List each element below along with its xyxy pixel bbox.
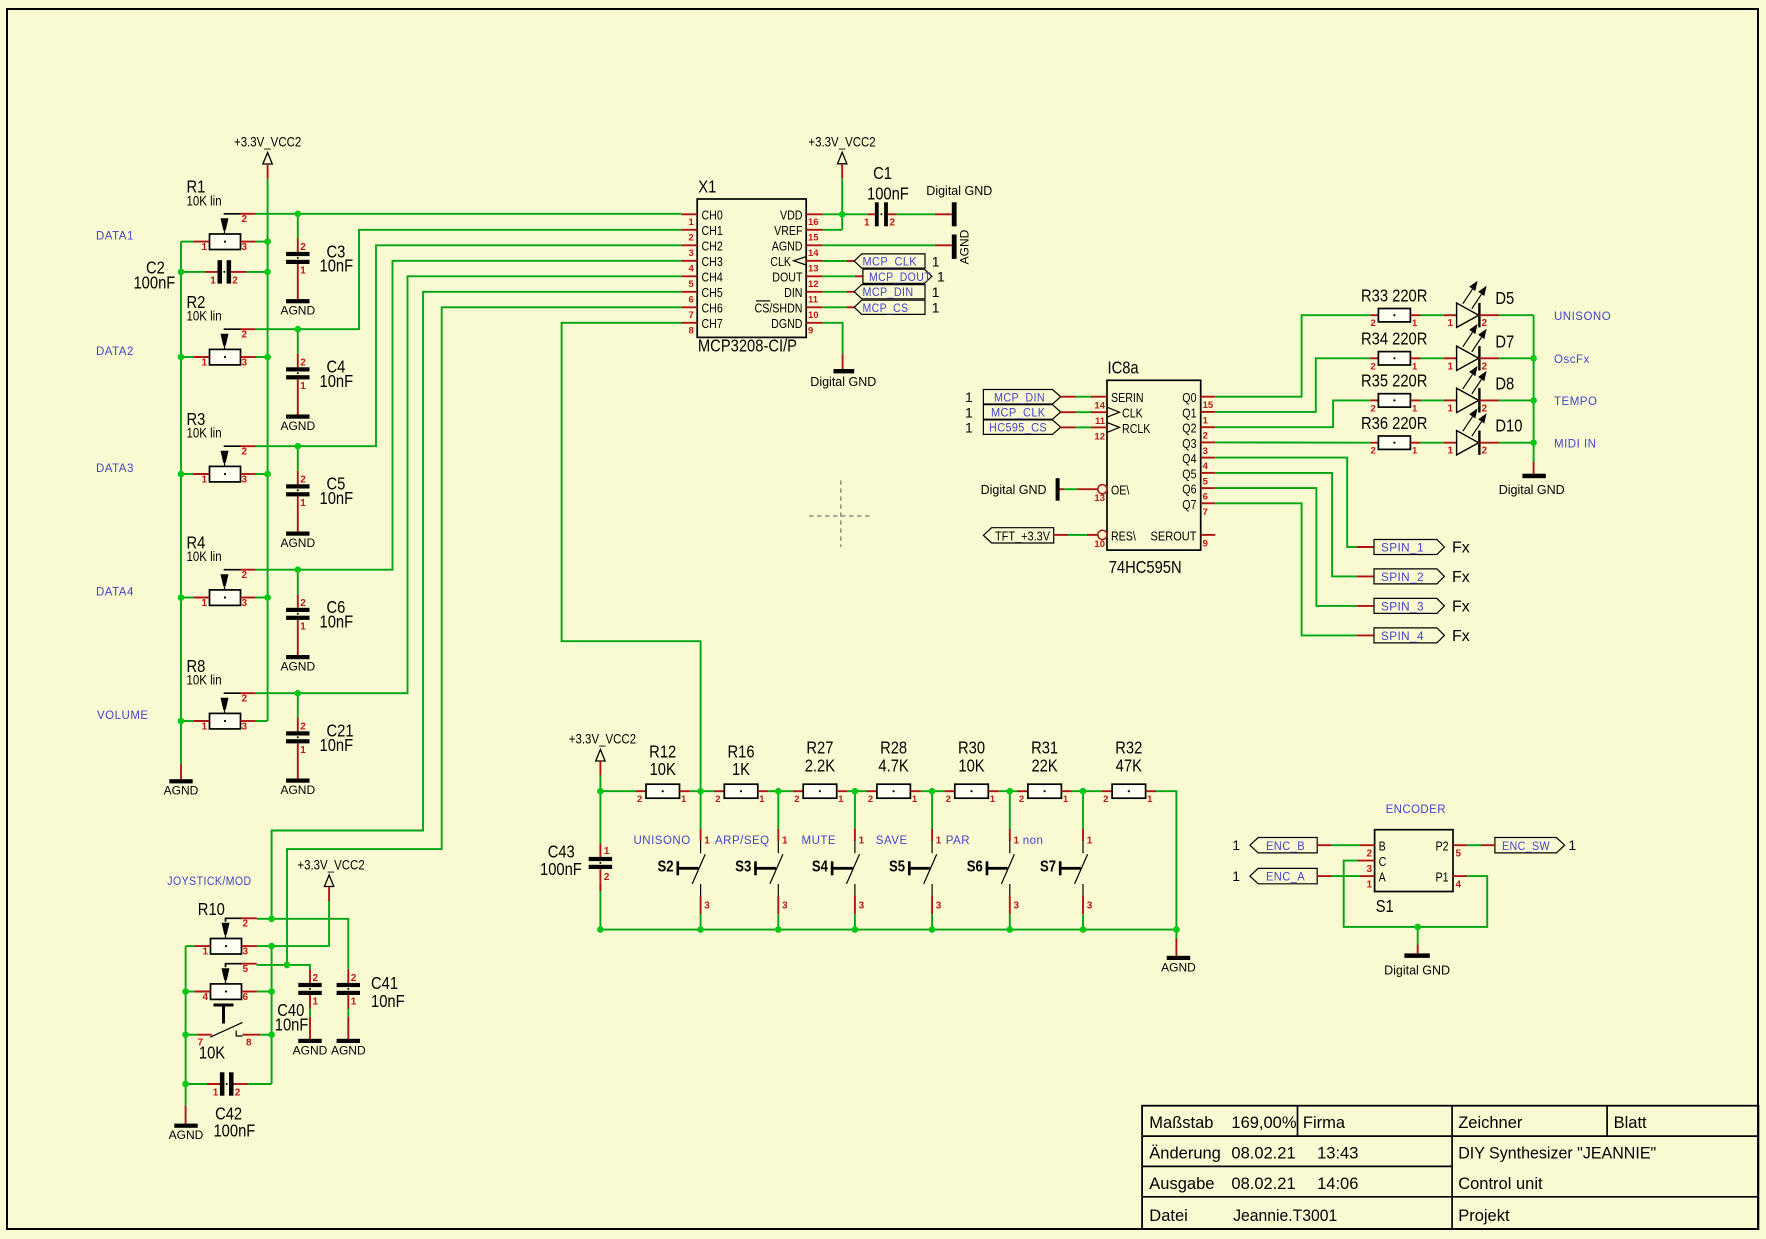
svg-text:10K: 10K <box>199 1043 225 1063</box>
svg-text:3: 3 <box>859 901 865 912</box>
svg-text:R33 220R: R33 220R <box>1361 286 1427 306</box>
IC IC8a 74HC595N <box>1094 358 1215 577</box>
net flag SPIN_1 <box>1374 540 1470 557</box>
svg-text:1: 1 <box>202 598 208 609</box>
capacitor C42 <box>207 1072 248 1098</box>
svg-text:OscFx: OscFx <box>1554 354 1590 366</box>
svg-text:2: 2 <box>313 973 319 984</box>
svg-text:SAVE: SAVE <box>876 835 908 847</box>
svg-text:CLK: CLK <box>770 254 791 269</box>
svg-text:VREF: VREF <box>774 223 802 238</box>
svg-text:10: 10 <box>1094 539 1105 550</box>
svg-text:13: 13 <box>808 263 819 274</box>
svg-text:MCP_CLK: MCP_CLK <box>863 257 918 269</box>
svg-text:3: 3 <box>1087 901 1093 912</box>
svg-text:1: 1 <box>838 794 844 805</box>
ground AGND <box>293 1039 328 1058</box>
svg-text:2: 2 <box>300 598 306 609</box>
net flag MCP_DOUT <box>863 269 945 285</box>
svg-text:DIN: DIN <box>784 285 802 300</box>
power +3.3V_VCC2 <box>808 133 875 178</box>
wire CH6 route to joystick Y wiper <box>287 307 681 965</box>
svg-text:Ausgabe: Ausgabe <box>1149 1175 1214 1193</box>
svg-text:1: 1 <box>704 836 710 847</box>
svg-text:2: 2 <box>1371 318 1376 329</box>
svg-text:3: 3 <box>1203 446 1208 457</box>
svg-text:PAR: PAR <box>946 835 970 847</box>
svg-text:R32: R32 <box>1115 738 1142 758</box>
wire C2 leads <box>181 271 268 273</box>
svg-text:22K: 22K <box>1031 756 1057 776</box>
svg-text:1K: 1K <box>732 760 750 780</box>
potentiometer R8 <box>187 657 256 733</box>
svg-text:14:06: 14:06 <box>1317 1175 1358 1193</box>
svg-text:S2: S2 <box>658 858 674 875</box>
svg-text:15: 15 <box>1203 400 1214 411</box>
wire D5 cathode to bus <box>1499 314 1534 316</box>
svg-text:1: 1 <box>1448 318 1454 329</box>
capacitor C1 <box>864 164 909 229</box>
svg-text:1: 1 <box>759 794 765 805</box>
wire junctions <box>839 211 846 218</box>
svg-text:2: 2 <box>1482 318 1488 329</box>
svg-text:R31: R31 <box>1031 738 1058 758</box>
potentiometer R4 <box>187 533 256 609</box>
net flag ENC_B <box>1232 837 1317 853</box>
svg-text:1: 1 <box>932 300 940 316</box>
svg-text:2: 2 <box>689 232 694 243</box>
svg-text:3: 3 <box>242 242 248 253</box>
svg-text:P1: P1 <box>1435 870 1448 885</box>
svg-text:D8: D8 <box>1495 374 1514 394</box>
svg-text:2: 2 <box>243 919 249 930</box>
resistor R31 <box>1018 738 1072 805</box>
wire R34 to D7 <box>1421 357 1445 359</box>
capacitor C4 <box>286 354 353 415</box>
svg-text:1: 1 <box>689 217 695 228</box>
svg-text:TEMPO: TEMPO <box>1554 396 1597 408</box>
svg-text:ARP/SEQ: ARP/SEQ <box>715 835 770 847</box>
svg-text:DATA3: DATA3 <box>96 463 134 475</box>
potentiometer R3 <box>187 410 256 486</box>
svg-text:S7: S7 <box>1040 858 1056 875</box>
wire junctions <box>1530 355 1537 446</box>
svg-text:1: 1 <box>1014 836 1020 847</box>
svg-text:1: 1 <box>936 836 942 847</box>
svg-text:2: 2 <box>300 474 306 485</box>
wire C43 top lead <box>599 791 601 929</box>
wire Q2 to R35 <box>1215 400 1370 427</box>
wire R33 to D5 <box>1421 314 1445 316</box>
wire DOUT to flag <box>823 275 863 277</box>
svg-text:S6: S6 <box>967 858 983 875</box>
svg-text:7: 7 <box>1203 507 1208 518</box>
svg-text:3: 3 <box>243 947 249 958</box>
wire C1 to DGND bar <box>935 213 952 215</box>
svg-text:1: 1 <box>782 836 788 847</box>
wire VOLUME net to CH4 <box>181 276 681 721</box>
svg-text:AGND: AGND <box>280 419 315 433</box>
svg-text:SPIN_2: SPIN_2 <box>1381 572 1424 584</box>
wire AGND pin to bar <box>823 244 952 246</box>
wire R10a wiper to C41 <box>257 919 349 970</box>
wire RES <box>1054 534 1098 536</box>
svg-text:1: 1 <box>213 1088 219 1099</box>
wire Q0 to R33 <box>1215 315 1370 397</box>
svg-text:IC8a: IC8a <box>1108 358 1140 378</box>
svg-text:1: 1 <box>932 253 940 269</box>
svg-text:TFT_+3.3V: TFT_+3.3V <box>995 528 1050 543</box>
svg-text:Maßstab: Maßstab <box>1149 1114 1213 1132</box>
svg-text:2: 2 <box>794 794 799 805</box>
svg-text:2: 2 <box>300 357 306 368</box>
switch S2 <box>634 791 711 929</box>
net flag TFT_+3.3V <box>983 528 1053 544</box>
wire R36 to D10 <box>1421 442 1445 444</box>
ground Digital GND (OE) <box>981 478 1060 501</box>
svg-text:1: 1 <box>965 389 973 405</box>
potentiometer R10a <box>194 918 257 957</box>
svg-text:CH1: CH1 <box>702 223 724 238</box>
switch S3 <box>715 791 788 929</box>
svg-text:2: 2 <box>1103 794 1108 805</box>
svg-text:CH5: CH5 <box>702 285 724 300</box>
resistor R32 <box>1102 738 1156 805</box>
wire RCLK <box>1061 426 1107 428</box>
wire CH7 route to ladder <box>562 323 701 791</box>
ground Digital GND (below MCP) <box>810 369 876 389</box>
ground Digital GND (encoder) <box>1384 953 1450 977</box>
capacitor C43 <box>589 844 612 891</box>
wire VDD VREF VCC <box>823 178 935 230</box>
svg-text:AGND: AGND <box>280 536 315 550</box>
svg-text:AGND: AGND <box>280 783 315 797</box>
svg-text:2: 2 <box>242 214 248 225</box>
svg-text:ENC_SW: ENC_SW <box>1502 841 1550 853</box>
capacitor C21 <box>286 718 353 779</box>
svg-text:1: 1 <box>1366 880 1372 891</box>
wire ENC_A to A <box>1317 875 1360 877</box>
svg-text:+3.3V_VCC2: +3.3V_VCC2 <box>234 133 301 149</box>
svg-text:1: 1 <box>1412 446 1418 457</box>
wire OE to gnd <box>1060 488 1098 490</box>
wire CS to flag <box>823 306 855 308</box>
resistor R30 <box>944 738 998 805</box>
svg-text:3: 3 <box>704 901 710 912</box>
svg-text:1: 1 <box>300 381 306 392</box>
svg-text:A: A <box>1379 870 1386 885</box>
wire junctions <box>182 916 290 1088</box>
wire R10a pins <box>186 945 330 947</box>
svg-text:DATA1: DATA1 <box>96 231 134 243</box>
svg-text:C41: C41 <box>371 974 398 994</box>
svg-text:Fx: Fx <box>1452 598 1470 615</box>
svg-text:Q0: Q0 <box>1182 390 1197 405</box>
svg-text:2: 2 <box>890 218 896 229</box>
svg-text:DIY Synthesizer "JEANNIE": DIY Synthesizer "JEANNIE" <box>1458 1145 1656 1163</box>
ground AGND <box>331 1039 366 1058</box>
switch S4 <box>802 791 865 929</box>
svg-text:Fx: Fx <box>1452 540 1470 557</box>
svg-text:S3: S3 <box>735 858 751 875</box>
ground AGND <box>280 299 315 318</box>
svg-text:10nF: 10nF <box>320 372 354 392</box>
svg-text:2: 2 <box>232 275 238 286</box>
svg-text:1: 1 <box>965 404 973 420</box>
wire AGND bus left chain <box>180 242 182 780</box>
switch S5 <box>876 791 942 929</box>
svg-text:1: 1 <box>202 722 208 733</box>
svg-text:2: 2 <box>1371 446 1376 457</box>
svg-text:VDD: VDD <box>780 207 802 222</box>
svg-text:DATA2: DATA2 <box>96 346 134 358</box>
wire Q1 to R34 <box>1215 358 1370 412</box>
svg-text:SPIN_3: SPIN_3 <box>1381 601 1424 613</box>
svg-text:2: 2 <box>1482 361 1488 372</box>
wire joystick VCC branch <box>271 946 273 1084</box>
svg-text:Q7: Q7 <box>1182 497 1196 512</box>
svg-text:R36 220R: R36 220R <box>1361 414 1427 434</box>
svg-text:OE\: OE\ <box>1111 483 1130 498</box>
ground AGND <box>1161 956 1196 975</box>
svg-text:4: 4 <box>1456 880 1462 891</box>
potentiometer R1 <box>187 177 256 253</box>
svg-text:CH7: CH7 <box>702 316 723 331</box>
svg-text:S1: S1 <box>1376 897 1394 917</box>
svg-text:1: 1 <box>859 836 865 847</box>
svg-text:12: 12 <box>1094 431 1105 442</box>
svg-text:10nF: 10nF <box>320 612 354 632</box>
svg-text:3: 3 <box>1366 864 1372 875</box>
net flag MCP_CLK <box>854 253 940 269</box>
wire DGND to ground <box>823 323 843 369</box>
svg-text:169,00%: 169,00% <box>1231 1114 1296 1132</box>
svg-text:Q5: Q5 <box>1182 466 1197 481</box>
svg-text:1: 1 <box>300 621 306 632</box>
svg-text:ENCODER: ENCODER <box>1386 804 1446 816</box>
net flag ENC_A <box>1232 868 1317 884</box>
svg-text:D7: D7 <box>1495 332 1514 352</box>
resistor R16 <box>714 742 768 805</box>
svg-text:11: 11 <box>808 294 819 305</box>
title block <box>1142 1106 1758 1229</box>
svg-text:non: non <box>1023 835 1044 847</box>
svg-text:14: 14 <box>808 248 819 259</box>
svg-text:100nF: 100nF <box>867 184 909 204</box>
svg-text:3: 3 <box>242 358 248 369</box>
svg-text:Digital GND: Digital GND <box>981 483 1047 497</box>
ground AGND (MCP right) <box>952 229 972 264</box>
svg-text:1: 1 <box>351 996 357 1007</box>
svg-text:CH2: CH2 <box>702 238 723 253</box>
svg-text:3: 3 <box>936 901 942 912</box>
svg-text:UNISONO: UNISONO <box>1554 311 1611 323</box>
wire Q4 to SPIN_1 <box>1215 458 1374 547</box>
wire R10b wiper to C40 <box>257 965 310 970</box>
svg-text:2: 2 <box>351 973 357 984</box>
svg-text:3: 3 <box>242 722 248 733</box>
svg-text:1: 1 <box>1232 837 1240 853</box>
svg-text:DATA4: DATA4 <box>96 587 134 599</box>
svg-text:1: 1 <box>210 275 216 286</box>
capacitor C6 <box>286 594 353 655</box>
svg-text:AGND: AGND <box>293 1043 328 1057</box>
net flag MCP_DIN <box>983 390 1060 405</box>
svg-text:AGND: AGND <box>164 784 199 798</box>
net flag ENC_SW <box>1495 837 1577 853</box>
svg-text:+3.3V_VCC2: +3.3V_VCC2 <box>297 856 364 872</box>
svg-text:1: 1 <box>965 420 973 436</box>
ground AGND <box>280 532 315 551</box>
svg-text:S5: S5 <box>889 858 905 875</box>
svg-text:3: 3 <box>242 598 248 609</box>
svg-text:R34 220R: R34 220R <box>1361 329 1427 349</box>
net flag SPIN_4 <box>1374 628 1470 645</box>
svg-text:5: 5 <box>1456 849 1462 860</box>
svg-text:1: 1 <box>937 269 945 285</box>
IC X1 MCP3208-CI/P <box>681 177 822 356</box>
wire Q3 to R36 <box>1215 441 1370 443</box>
svg-text:10nF: 10nF <box>320 736 354 756</box>
svg-text:3: 3 <box>242 475 248 486</box>
svg-text:2: 2 <box>715 794 720 805</box>
svg-text:08.02.21: 08.02.21 <box>1231 1145 1295 1163</box>
power +3.3V_VCC2 <box>297 856 364 901</box>
svg-text:P2: P2 <box>1435 839 1448 854</box>
wire CH5 route to joystick X wiper <box>272 292 682 919</box>
ground AGND <box>280 655 315 674</box>
capacitor C5 <box>286 471 353 532</box>
potentiometer R2 <box>187 293 256 369</box>
svg-text:10nF: 10nF <box>320 256 354 276</box>
svg-text:+3.3V_VCC2: +3.3V_VCC2 <box>808 133 875 149</box>
wire gnd stem <box>1417 927 1419 954</box>
svg-text:B: B <box>1379 839 1386 854</box>
svg-text:R10: R10 <box>198 900 225 920</box>
svg-text:4: 4 <box>203 992 209 1003</box>
svg-text:1: 1 <box>300 498 306 509</box>
svg-text:MCP3208-CI/P: MCP3208-CI/P <box>698 336 797 356</box>
svg-text:4.7K: 4.7K <box>878 756 908 776</box>
svg-text:12: 12 <box>808 279 819 290</box>
svg-text:DGND: DGND <box>771 316 802 331</box>
wire C loop <box>1344 861 1488 927</box>
svg-text:DOUT: DOUT <box>772 269 802 284</box>
svg-text:Firma: Firma <box>1303 1114 1346 1132</box>
svg-text:16: 16 <box>808 217 819 228</box>
svg-text:Jeannie.T3001: Jeannie.T3001 <box>1233 1207 1337 1225</box>
resistor R28 <box>867 738 921 805</box>
svg-text:1: 1 <box>864 218 870 229</box>
svg-text:D10: D10 <box>1495 416 1522 436</box>
svg-text:10K lin: 10K lin <box>187 425 222 441</box>
svg-text:13:43: 13:43 <box>1317 1145 1358 1163</box>
svg-text:10K lin: 10K lin <box>187 548 222 564</box>
svg-text:SPIN_4: SPIN_4 <box>1381 631 1424 643</box>
svg-text:10K lin: 10K lin <box>187 192 222 208</box>
svg-text:2: 2 <box>242 447 248 458</box>
svg-text:1: 1 <box>604 846 610 857</box>
svg-text:100nF: 100nF <box>214 1121 256 1141</box>
svg-text:10nF: 10nF <box>320 489 354 509</box>
wire D7 cathode to bus <box>1499 357 1534 359</box>
ground Digital GND (MCP right) <box>926 184 992 226</box>
svg-text:+3.3V_VCC2: +3.3V_VCC2 <box>569 730 636 746</box>
svg-text:HC595_CS: HC595_CS <box>989 423 1047 435</box>
svg-text:13: 13 <box>1094 493 1105 504</box>
svg-text:1: 1 <box>202 242 208 253</box>
svg-text:Q1: Q1 <box>1182 405 1197 420</box>
svg-text:MCP_DOUT: MCP_DOUT <box>869 272 931 284</box>
wire SERIN <box>1061 396 1107 398</box>
svg-text:10K: 10K <box>650 760 676 780</box>
svg-text:1: 1 <box>1063 794 1069 805</box>
wire Q7 to SPIN_4 <box>1215 503 1374 635</box>
wire DATA4 net to CH3 <box>181 261 681 598</box>
net flag MCP_CLK <box>983 405 1060 420</box>
ground AGND <box>164 779 199 798</box>
ground Digital GND (LEDs) <box>1499 474 1565 497</box>
capacitor C41 <box>337 970 360 1039</box>
svg-text:1: 1 <box>300 745 306 756</box>
svg-text:1: 1 <box>932 284 940 300</box>
svg-text:5: 5 <box>689 279 695 290</box>
wire DATA2 net to CH1 <box>181 230 681 357</box>
switch S7 <box>1023 791 1093 929</box>
svg-text:MCP_DIN: MCP_DIN <box>994 392 1045 404</box>
wire joystick AGND bus <box>185 946 187 1124</box>
capacitor C2 <box>205 260 246 286</box>
svg-text:RCLK: RCLK <box>1122 421 1150 436</box>
ground AGND <box>169 1124 204 1143</box>
svg-text:MUTE: MUTE <box>802 835 837 847</box>
wire R10b pins <box>186 991 272 993</box>
svg-text:2: 2 <box>1203 431 1208 442</box>
switch 10K joystick <box>186 1004 272 1063</box>
svg-text:2.2K: 2.2K <box>805 756 835 776</box>
svg-text:Datei: Datei <box>1149 1207 1188 1225</box>
svg-text:2: 2 <box>637 794 642 805</box>
svg-text:4: 4 <box>1203 461 1209 472</box>
svg-text:2: 2 <box>242 330 248 341</box>
wire junctions <box>597 788 1180 933</box>
svg-text:6: 6 <box>1203 492 1208 503</box>
svg-text:2: 2 <box>235 1088 241 1099</box>
LED D8 <box>1444 366 1514 415</box>
svg-text:Q6: Q6 <box>1182 482 1197 497</box>
svg-text:Q2: Q2 <box>1182 421 1196 436</box>
svg-text:CS/SHDN: CS/SHDN <box>755 300 803 315</box>
svg-text:5: 5 <box>1203 476 1209 487</box>
svg-text:5: 5 <box>243 964 249 975</box>
ground AGND <box>280 779 315 798</box>
potentiometer R10b <box>194 964 257 1003</box>
svg-text:4: 4 <box>689 263 695 274</box>
svg-text:Änderung: Änderung <box>1149 1145 1221 1163</box>
svg-text:Digital GND: Digital GND <box>926 184 992 198</box>
svg-text:2: 2 <box>242 694 248 705</box>
svg-text:R35 220R: R35 220R <box>1361 371 1427 391</box>
svg-text:10K: 10K <box>958 756 984 776</box>
svg-text:Q4: Q4 <box>1182 451 1197 466</box>
resistor R12 <box>636 742 690 805</box>
svg-text:Zeichner: Zeichner <box>1458 1114 1523 1132</box>
svg-text:2: 2 <box>604 872 610 883</box>
svg-text:1: 1 <box>202 475 208 486</box>
svg-text:UNISONO: UNISONO <box>634 835 691 847</box>
svg-text:AGND: AGND <box>958 229 972 264</box>
svg-text:MCP_CLK: MCP_CLK <box>991 408 1046 420</box>
